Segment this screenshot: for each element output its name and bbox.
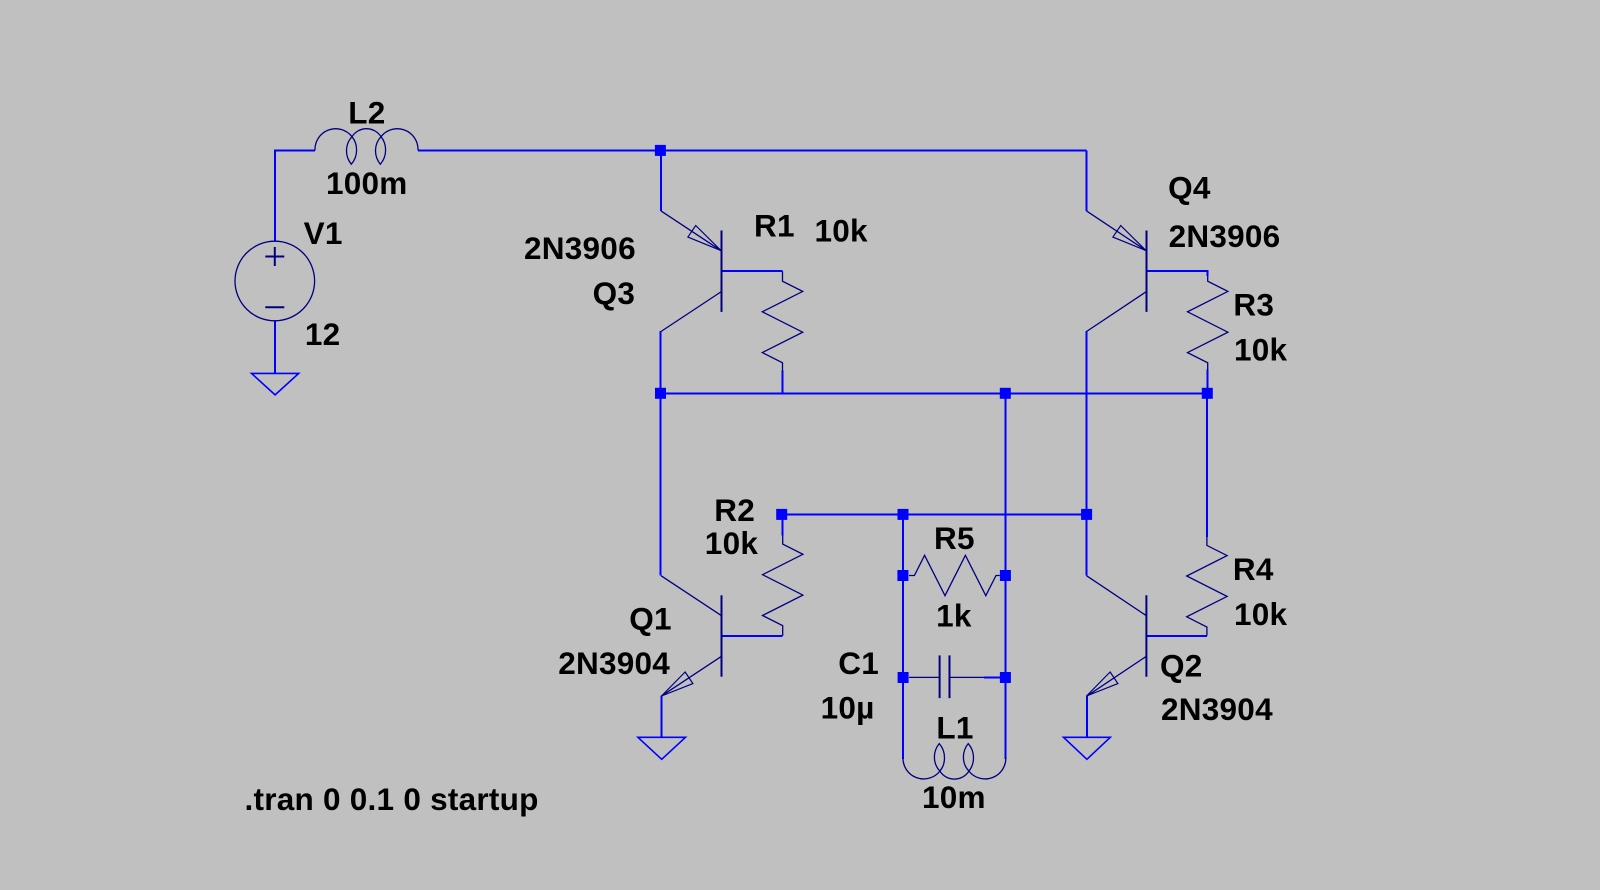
junction node mid row x=782: [776, 509, 787, 520]
transistor Q3 PNP: [661, 211, 722, 332]
svg-text:2N3904: 2N3904: [1161, 691, 1273, 727]
svg-text:10k: 10k: [1234, 596, 1288, 632]
resistor R2: [763, 535, 803, 636]
wire R2 bottom to Q1 base: [722, 635, 783, 637]
wire V1 top lead to top rail: [275, 150, 315, 241]
resistor R1: [762, 271, 802, 371]
svg-text:L2: L2: [348, 95, 385, 131]
junction node mid row x=903: [898, 509, 909, 520]
junction node C1 right: [1000, 672, 1011, 683]
wire R3 bottom lead: [1206, 370, 1208, 394]
wire C1 right lead blue part: [984, 676, 1006, 678]
wire tank right vertical x=1005.5: [1005, 393, 1007, 759]
resistor R4: [1187, 537, 1227, 636]
svg-text:12: 12: [305, 316, 341, 352]
wire R4 top lead: [1206, 393, 1208, 537]
wire Q3 base to R1 top: [722, 270, 783, 272]
svg-text:Q3: Q3: [593, 275, 636, 311]
junction node R5 left: [897, 570, 908, 581]
wire R2 top lead: [782, 514, 784, 535]
svg-text:R1: R1: [754, 208, 795, 244]
svg-text:10m: 10m: [922, 779, 986, 815]
junction node R5 right: [1000, 570, 1011, 581]
svg-text:R4: R4: [1233, 551, 1274, 587]
wire Q2 emitter lead to ground: [1086, 696, 1088, 738]
svg-text:2N3904: 2N3904: [558, 645, 670, 681]
inductor L1: [903, 744, 1006, 780]
wire bus node row y=393: [661, 392, 1208, 394]
voltage source V1: [235, 241, 315, 321]
svg-text:V1: V1: [304, 215, 343, 251]
svg-text:R5: R5: [934, 520, 975, 556]
svg-text:R2: R2: [714, 492, 755, 528]
transistor Q2 NPN: [1087, 576, 1147, 697]
transistor Q4 PNP: [1087, 211, 1147, 332]
ground symbol below V1: [252, 373, 299, 395]
wire Q1 emitter lead to ground: [660, 696, 662, 738]
svg-text:10k: 10k: [815, 212, 869, 248]
wire Q4 base to R3 top: [1147, 271, 1208, 276]
ground symbol below Q1: [638, 737, 686, 759]
resistor R3: [1188, 276, 1228, 370]
wire R1 bottom lead: [782, 371, 784, 394]
transistor Q1 NPN: [661, 576, 722, 697]
wire Q3 collector to bus and down to Q1 collector: [660, 331, 662, 576]
wire V1 bottom lead to ground: [274, 321, 276, 374]
svg-text:1k: 1k: [936, 597, 972, 633]
junction node top rail x=660: [655, 145, 666, 156]
svg-text:Q4: Q4: [1168, 170, 1211, 206]
svg-text:.tran 0 0.1 0 startup: .tran 0 0.1 0 startup: [245, 781, 539, 817]
svg-text:10k: 10k: [705, 525, 759, 561]
svg-text:Q1: Q1: [629, 600, 672, 636]
junction node C1 left: [898, 672, 909, 683]
inductor L2: [315, 129, 418, 165]
wire top rail: [418, 149, 1087, 151]
svg-text:C1: C1: [838, 645, 879, 681]
svg-text:R3: R3: [1233, 287, 1274, 323]
wire mid row y=514 R2 to collectors: [782, 513, 1087, 515]
junction node bus x=660: [655, 388, 666, 399]
svg-text:100m: 100m: [326, 165, 408, 201]
resistor R5: [909, 555, 1000, 595]
junction node bus x=1207: [1202, 388, 1213, 399]
junction node mid row x=1086: [1081, 509, 1092, 520]
wire Q3 emitter lead: [660, 150, 662, 211]
svg-text:Q2: Q2: [1160, 647, 1203, 683]
wire tank left vertical x=903: [902, 514, 904, 759]
junction node bus x=1005: [1000, 388, 1011, 399]
wire Q4 emitter lead: [1086, 150, 1088, 211]
svg-text:2N3906: 2N3906: [1169, 218, 1281, 254]
ground symbol below Q2: [1064, 737, 1111, 759]
capacitor C1: [909, 655, 984, 698]
svg-text:10k: 10k: [1234, 332, 1288, 368]
wire Q4 collector down to Q2 collector: [1086, 331, 1088, 576]
svg-text:L1: L1: [936, 710, 973, 746]
svg-text:2N3906: 2N3906: [524, 230, 636, 266]
svg-text:10µ: 10µ: [821, 689, 875, 725]
wire R4 bottom to Q2 base: [1146, 635, 1207, 637]
